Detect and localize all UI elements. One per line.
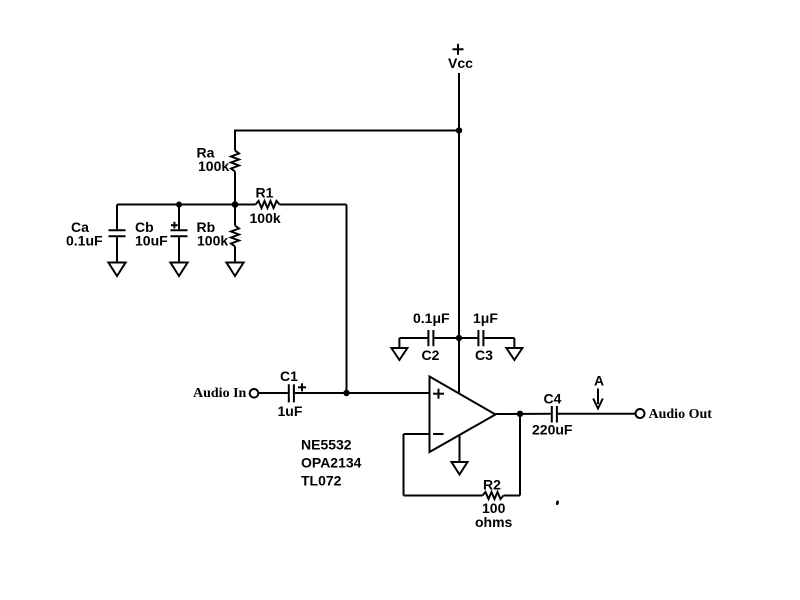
svg-text:TL072: TL072 (301, 472, 342, 488)
svg-text:Audio In: Audio In (193, 386, 247, 401)
wire R1 to C1 node vertical (346, 205, 348, 394)
wire Audio In to C1 (259, 392, 288, 394)
wire Vcc stub (458, 73, 460, 131)
svg-text:1μF: 1μF (473, 310, 498, 326)
svg-text:ohms: ohms (475, 514, 513, 530)
wire feedback bottom left (404, 495, 483, 497)
svg-text:100k: 100k (198, 158, 229, 174)
junction node Vcc (456, 127, 462, 133)
capacitor Ca (109, 205, 126, 263)
wire feedback right vertical (519, 414, 521, 496)
svg-text:Vcc: Vcc (448, 55, 473, 71)
wire C1 to op-amp input (295, 392, 430, 394)
wire top rail (234, 130, 459, 132)
svg-text:220uF: 220uF (532, 422, 573, 438)
capacitor C2 (399, 330, 459, 348)
svg-text:0.1uF: 0.1uF (66, 233, 103, 249)
terminal Audio Out (636, 409, 645, 418)
resistor R1 (256, 201, 280, 208)
svg-text:NE5532: NE5532 (301, 436, 352, 452)
junction node bias divider (232, 201, 239, 208)
wire bias row left (117, 204, 256, 206)
wire feedback left vertical (403, 434, 405, 496)
power symbol Vcc plus (453, 44, 464, 55)
junction node Cb tap (176, 202, 182, 208)
svg-text:R1: R1 (256, 184, 274, 200)
svg-text:1uF: 1uF (278, 403, 303, 419)
svg-text:100k: 100k (197, 233, 228, 249)
stray ink speck (556, 500, 560, 505)
svg-text:A: A (594, 372, 604, 388)
ground for Cb (170, 263, 187, 277)
capacitor Cb (171, 205, 188, 263)
resistor R2 (483, 492, 504, 499)
ground for Rb (226, 263, 243, 277)
op-amp U1 (430, 377, 496, 453)
svg-text:C4: C4 (544, 391, 562, 407)
op-amp U1 minus input marker (433, 433, 444, 435)
terminal Audio In (250, 389, 259, 398)
wire Vcc supply rail down to op-amp (458, 131, 460, 394)
wire feedback bottom right (504, 495, 521, 497)
wire inverting input stub (404, 433, 430, 435)
ground for op-amp (452, 462, 468, 475)
resistor Rb (231, 205, 239, 263)
svg-text:R2: R2 (483, 477, 501, 493)
resistor Ra (231, 131, 239, 205)
op-amp U1 plus input marker (433, 389, 444, 399)
node A marker arrow (593, 389, 603, 409)
capacitor C4 (552, 406, 557, 423)
svg-text:0.1μF: 0.1μF (413, 310, 450, 326)
wire output (496, 413, 551, 415)
junction node supply decoupling (456, 335, 462, 341)
svg-text:C3: C3 (475, 347, 493, 363)
svg-text:C2: C2 (422, 347, 440, 363)
ground for Ca (108, 263, 125, 277)
svg-text:OPA2134: OPA2134 (301, 454, 362, 470)
ground for C2 (391, 348, 407, 360)
svg-text:100k: 100k (250, 210, 281, 226)
svg-text:C1: C1 (280, 368, 298, 384)
capacitor C3 (459, 330, 514, 348)
ground for C3 (506, 348, 522, 360)
wire C4 to Audio Out (558, 413, 636, 415)
svg-text:10uF: 10uF (135, 233, 168, 249)
wire bias row right (280, 204, 347, 206)
capacitor C1 (289, 383, 306, 402)
junction node C1 R1 (343, 390, 349, 396)
op-amp U1 ground pin wire (459, 436, 461, 463)
svg-text:Audio Out: Audio Out (649, 407, 713, 422)
junction node output (517, 411, 523, 417)
